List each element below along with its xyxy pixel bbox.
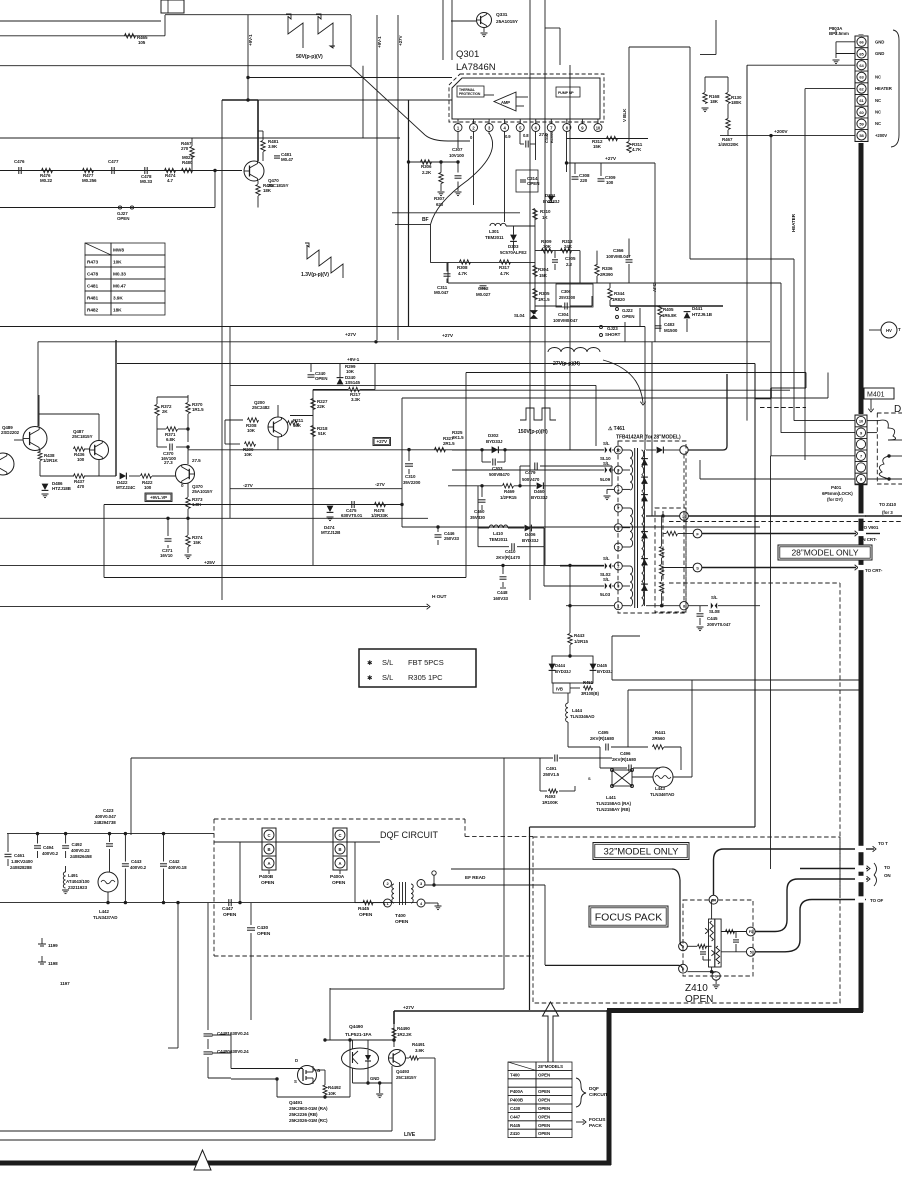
svg-text:R451: R451	[583, 680, 594, 685]
svg-text:250V1.5: 250V1.5	[543, 772, 560, 777]
svg-text:C430: C430	[510, 1106, 521, 1111]
svg-text:1.3V(p-p)(V): 1.3V(p-p)(V)	[301, 272, 329, 278]
svg-text:+27V: +27V	[398, 35, 403, 46]
svg-text:CIRCUIT: CIRCUIT	[589, 1092, 608, 1098]
svg-text:R473: R473	[87, 260, 98, 266]
svg-text:NC: NC	[875, 110, 881, 115]
svg-text:C4480: C4480	[217, 1049, 230, 1054]
svg-text:+27V: +27V	[403, 1005, 415, 1011]
svg-text:240826458: 240826458	[70, 854, 92, 859]
svg-text:R305 1PC: R305 1PC	[408, 673, 443, 682]
svg-text:16V10: 16V10	[160, 553, 173, 558]
svg-text:3.3K: 3.3K	[351, 397, 361, 402]
svg-text:-27V: -27V	[375, 482, 386, 488]
svg-text:R344: R344	[614, 291, 625, 296]
svg-text:BYD33J: BYD33J	[486, 439, 503, 444]
svg-text:28”MODEL ONLY: 28”MODEL ONLY	[791, 548, 858, 558]
svg-text:OPEN: OPEN	[538, 1098, 550, 1103]
svg-text:27V(p-p)(H): 27V(p-p)(H)	[553, 361, 580, 367]
svg-text:TO: TO	[884, 865, 891, 870]
svg-text:MTZJ24C: MTZJ24C	[116, 485, 136, 490]
svg-text:1/2FR15: 1/2FR15	[500, 495, 517, 500]
svg-text:BYD33J: BYD33J	[531, 495, 548, 500]
svg-text:3.9K: 3.9K	[415, 1048, 425, 1053]
svg-text:HEATER: HEATER	[791, 213, 796, 232]
svg-text:400V0.22: 400V0.22	[71, 848, 90, 853]
svg-text:HV: HV	[886, 328, 892, 333]
svg-text:S/L: S/L	[382, 658, 393, 667]
svg-text:R4492: R4492	[328, 1085, 341, 1090]
svg-text:C478: C478	[87, 272, 98, 278]
svg-text:C445: C445	[707, 616, 718, 621]
svg-text:0.9: 0.9	[505, 134, 511, 139]
svg-text:+200V: +200V	[875, 133, 887, 138]
svg-text:C304: C304	[558, 312, 569, 317]
svg-text:TO CRT-: TO CRT-	[865, 568, 883, 573]
svg-text:T400: T400	[510, 1072, 520, 1077]
svg-text:ON: ON	[884, 873, 891, 878]
svg-text:18K: 18K	[113, 308, 122, 314]
svg-text:1198: 1198	[48, 961, 58, 966]
svg-text:D: D	[295, 1058, 298, 1063]
svg-text:25A1015Y: 25A1015Y	[496, 19, 519, 25]
svg-text:2R390: 2R390	[600, 272, 613, 277]
svg-text:C495: C495	[598, 730, 609, 735]
svg-text:24K: 24K	[564, 244, 573, 249]
svg-text:1R2.2K: 1R2.2K	[397, 1032, 413, 1037]
svg-text:630V0.24: 630V0.24	[230, 1049, 249, 1054]
svg-text:Q4490: Q4490	[349, 1024, 363, 1030]
svg-text:OPEN: OPEN	[395, 919, 409, 925]
svg-text:15K: 15K	[193, 540, 202, 545]
svg-text:150V(p-p)(H): 150V(p-p)(H)	[518, 429, 548, 435]
svg-text:TO T: TO T	[878, 841, 888, 846]
svg-text:MTZJ12B: MTZJ12B	[321, 530, 341, 535]
svg-text:25K2236 (RB): 25K2236 (RB)	[289, 1112, 318, 1117]
svg-text:180K: 180K	[731, 100, 742, 105]
svg-text:400V0.18: 400V0.18	[168, 865, 187, 870]
svg-text:100VM0.047: 100VM0.047	[553, 318, 578, 323]
svg-text:NC: NC	[875, 98, 881, 103]
svg-text:L491: L491	[68, 873, 78, 878]
svg-text:M0.047: M0.047	[434, 290, 449, 295]
svg-text:OPEN: OPEN	[527, 181, 539, 186]
svg-text:EF READ: EF READ	[465, 875, 486, 881]
svg-text:NC: NC	[875, 74, 881, 79]
svg-text:R306: R306	[421, 164, 432, 169]
svg-text:6P5mm(LOCK): 6P5mm(LOCK)	[822, 491, 853, 496]
svg-text:160V33: 160V33	[493, 596, 509, 601]
svg-text:1/4W220K: 1/4W220K	[718, 142, 739, 147]
svg-text:D460: D460	[534, 489, 545, 494]
svg-text:1R100K: 1R100K	[542, 800, 559, 805]
svg-text:OPEN: OPEN	[685, 994, 713, 1005]
svg-text:C: C	[339, 833, 342, 838]
svg-text:S: S	[588, 776, 591, 781]
svg-text:C477: C477	[108, 159, 119, 164]
svg-text:IVB: IVB	[556, 687, 563, 692]
svg-text:S/L: S/L	[603, 461, 610, 466]
svg-text:BP2.5mm: BP2.5mm	[829, 31, 849, 36]
svg-text:R445: R445	[358, 906, 369, 912]
svg-text:+27V: +27V	[345, 332, 357, 338]
svg-text:400V0.2: 400V0.2	[130, 865, 147, 870]
svg-text:10K: 10K	[328, 1091, 337, 1096]
svg-text:D444: D444	[555, 663, 566, 668]
svg-text:1R1.5: 1R1.5	[538, 297, 550, 302]
svg-text:+9V-1: +9V-1	[347, 357, 360, 363]
svg-text:2.2K: 2.2K	[422, 170, 432, 175]
svg-text:R304: R304	[538, 267, 549, 272]
svg-text:100: 100	[144, 485, 152, 490]
svg-text:P400B: P400B	[259, 874, 274, 880]
svg-text:OPEN: OPEN	[257, 931, 271, 937]
svg-text:DQF CIRCUIT: DQF CIRCUIT	[380, 830, 438, 840]
svg-text:T400: T400	[395, 913, 406, 919]
svg-text:2KV(R)1680: 2KV(R)1680	[612, 757, 637, 762]
svg-text:D441: D441	[692, 306, 703, 311]
svg-text:OPEN: OPEN	[359, 912, 373, 918]
svg-text:TO OF: TO OF	[870, 898, 884, 903]
svg-text:+200V: +200V	[774, 129, 788, 135]
svg-text:AMP: AMP	[501, 100, 510, 105]
svg-text:OPEN: OPEN	[538, 1089, 550, 1094]
svg-text:OPEN: OPEN	[261, 880, 275, 886]
svg-text:C430: C430	[257, 925, 268, 931]
svg-text:F1: F1	[749, 930, 753, 934]
svg-text:10K: 10K	[247, 428, 256, 433]
svg-text:25C1815Y: 25C1815Y	[396, 1075, 417, 1080]
svg-text:C491: C491	[546, 766, 557, 771]
svg-text:+27V: +27V	[442, 333, 454, 339]
svg-text:TO Z410: TO Z410	[879, 502, 897, 507]
svg-text:C307: C307	[452, 147, 463, 152]
svg-text:C460: C460	[474, 509, 485, 514]
svg-text:C479: C479	[525, 470, 536, 475]
svg-text:35V2200: 35V2200	[403, 480, 421, 485]
svg-text:C461: C461	[14, 853, 25, 858]
svg-text:2KV(R)1470: 2KV(R)1470	[496, 555, 521, 560]
svg-text:LA7846N: LA7846N	[456, 62, 496, 73]
svg-text:1/2R1K: 1/2R1K	[43, 458, 59, 463]
svg-text:+9V-1: +9V-1	[248, 34, 253, 46]
svg-text:PACK: PACK	[589, 1123, 602, 1129]
svg-text:R307: R307	[434, 196, 445, 201]
svg-text:C492: C492	[72, 842, 83, 847]
svg-text:C476: C476	[14, 159, 25, 164]
svg-text:BYD33J: BYD33J	[555, 669, 571, 674]
svg-text:630VT0.01: 630VT0.01	[341, 513, 363, 518]
svg-text:2K: 2K	[162, 409, 168, 414]
svg-text:SL08: SL08	[709, 609, 720, 614]
svg-text:TLN3346AD: TLN3346AD	[570, 714, 595, 719]
svg-text:16V100: 16V100	[161, 456, 177, 461]
svg-text:S/L: S/L	[382, 673, 393, 682]
svg-text:HEATER: HEATER	[875, 86, 893, 91]
svg-text:28”MODELS: 28”MODELS	[538, 1064, 563, 1069]
svg-text:GND: GND	[370, 1076, 379, 1081]
svg-text:100VM0.047: 100VM0.047	[606, 254, 631, 259]
svg-text:18K: 18K	[263, 188, 272, 193]
svg-text:T: T	[898, 327, 901, 332]
svg-text:C410: C410	[505, 549, 516, 554]
svg-text:S/L: S/L	[603, 441, 610, 446]
svg-text:R445: R445	[510, 1123, 521, 1128]
svg-text:S/L: S/L	[711, 595, 718, 600]
svg-text:C312: C312	[478, 286, 489, 291]
svg-text:TLN2158AY (RB): TLN2158AY (RB)	[596, 807, 630, 812]
svg-text:C4481: C4481	[217, 1031, 230, 1036]
svg-text:HTZJ9.1B: HTZJ9.1B	[692, 312, 713, 317]
svg-text:5L03: 5L03	[600, 592, 611, 597]
svg-text:FOCUS PACK: FOCUS PACK	[595, 911, 662, 923]
svg-text:1R1.5: 1R1.5	[192, 407, 204, 412]
svg-text:51K: 51K	[318, 431, 327, 436]
svg-text:240828288: 240828288	[10, 865, 32, 870]
svg-text:M0.22: M0.22	[40, 178, 53, 183]
svg-text:M0.47: M0.47	[281, 157, 294, 162]
svg-text:⚠ T461: ⚠ T461	[608, 426, 625, 432]
svg-text:P400A: P400A	[510, 1089, 524, 1094]
svg-text:TFB4142AR (for 28”MODEL): TFB4142AR (for 28”MODEL)	[616, 435, 681, 441]
svg-text:AT4043/100: AT4043/100	[66, 879, 90, 884]
svg-text:R336: R336	[602, 266, 613, 271]
svg-text:HTZJ18B: HTZJ18B	[52, 486, 72, 491]
svg-text:+27V: +27V	[605, 156, 617, 162]
svg-text:25C1815Y: 25C1815Y	[72, 434, 93, 439]
svg-text:TLP521-1FA: TLP521-1FA	[345, 1032, 372, 1038]
svg-text:50V(p-p)(V): 50V(p-p)(V)	[296, 54, 323, 60]
svg-text:MW8: MW8	[113, 248, 124, 254]
svg-text:R405: R405	[663, 307, 674, 312]
svg-text:22K: 22K	[317, 404, 326, 409]
svg-text:TEM2011: TEM2011	[485, 235, 504, 240]
svg-text:1199: 1199	[48, 943, 58, 948]
svg-text:C494: C494	[43, 845, 54, 850]
svg-text:C448: C448	[497, 590, 508, 595]
svg-text:L444: L444	[572, 708, 582, 713]
svg-text:B1000: B1000	[549, 131, 554, 143]
svg-text:OPEN: OPEN	[117, 216, 129, 221]
svg-text:25A1015Y: 25A1015Y	[192, 489, 213, 494]
svg-text:C447: C447	[222, 906, 233, 912]
svg-text:L410: L410	[493, 531, 503, 536]
svg-text:10: 10	[682, 515, 686, 519]
svg-text:2KV(R)1680: 2KV(R)1680	[590, 736, 615, 741]
svg-text:M0.47: M0.47	[113, 284, 126, 290]
svg-text:OPEN: OPEN	[538, 1114, 550, 1119]
svg-text:10K: 10K	[346, 369, 355, 374]
svg-text:NC: NC	[875, 121, 881, 126]
svg-text:M0.027: M0.027	[476, 292, 491, 297]
svg-text:+27V: +27V	[377, 439, 388, 444]
svg-text:500VB470: 500VB470	[489, 472, 510, 477]
svg-text:M401: M401	[867, 392, 885, 399]
svg-text:TLN346TAD: TLN346TAD	[650, 792, 675, 797]
svg-text:TLN2158AG (RA): TLN2158AG (RA)	[596, 801, 631, 806]
svg-text:Q4493: Q4493	[396, 1069, 410, 1074]
svg-text:1R820: 1R820	[612, 297, 625, 302]
svg-text:C496: C496	[620, 751, 631, 756]
svg-text:1/2R15: 1/2R15	[574, 639, 589, 644]
svg-text:248294738: 248294738	[94, 820, 116, 825]
svg-text:6.8K: 6.8K	[166, 437, 176, 442]
svg-text:630V0.24: 630V0.24	[230, 1031, 249, 1036]
svg-text:2N: 2N	[711, 898, 716, 902]
svg-text:D301: D301	[545, 193, 556, 198]
svg-text:M022: M022	[182, 155, 193, 160]
svg-text:C442: C442	[169, 859, 180, 864]
svg-text:105: 105	[138, 40, 146, 45]
svg-text:15K: 15K	[539, 273, 548, 278]
svg-text:R469: R469	[504, 489, 515, 494]
svg-text:C443: C443	[131, 859, 142, 864]
svg-text:SL04: SL04	[514, 313, 525, 318]
svg-text:C447: C447	[510, 1114, 521, 1119]
svg-text:OPEN: OPEN	[622, 314, 634, 319]
svg-text:Z410: Z410	[685, 983, 708, 994]
svg-text:470: 470	[77, 484, 85, 489]
svg-text:500V470: 500V470	[522, 477, 540, 482]
svg-text:+9V-1: +9V-1	[377, 36, 382, 48]
svg-text:(for DY): (for DY)	[827, 497, 843, 502]
svg-text:270: 270	[181, 146, 189, 151]
svg-text:R482: R482	[87, 308, 98, 314]
svg-text:PROTECTION: PROTECTION	[459, 92, 481, 96]
svg-text:Z410: Z410	[510, 1131, 520, 1136]
svg-text:10V100: 10V100	[449, 153, 465, 158]
svg-text:TLN3437AD: TLN3437AD	[93, 915, 118, 920]
svg-text:D302: D302	[488, 433, 499, 438]
svg-text:R480: R480	[182, 160, 193, 165]
svg-text:S: S	[696, 565, 699, 570]
svg-text:1197: 1197	[60, 981, 70, 986]
svg-text:FOCUS: FOCUS	[589, 1117, 606, 1123]
svg-text:250V33: 250V33	[444, 536, 460, 541]
svg-text:P400A: P400A	[330, 874, 345, 880]
svg-text:1R6.8K: 1R6.8K	[662, 313, 678, 318]
svg-text:GJ22: GJ22	[622, 308, 633, 313]
svg-text:1S5145: 1S5145	[345, 380, 361, 385]
svg-text:30K: 30K	[543, 244, 552, 249]
svg-text:BYD33J: BYD33J	[522, 538, 539, 543]
svg-text:R443: R443	[574, 633, 585, 638]
svg-text:G: G	[715, 975, 718, 979]
svg-text:D406: D406	[525, 532, 536, 537]
svg-text:P400B: P400B	[510, 1098, 523, 1103]
svg-text:M0.256: M0.256	[82, 178, 97, 183]
svg-text:Q4491: Q4491	[289, 1100, 303, 1105]
svg-text:B: B	[268, 847, 271, 852]
svg-text:SHORT: SHORT	[605, 332, 621, 337]
svg-text:4.7K: 4.7K	[632, 147, 642, 152]
svg-text:BF: BF	[422, 217, 429, 223]
svg-text:(for 3: (for 3	[882, 510, 893, 515]
svg-text:25K2026-01M (RC): 25K2026-01M (RC)	[289, 1118, 328, 1123]
svg-text:A: A	[268, 861, 271, 866]
svg-text:S/L: S/L	[603, 577, 610, 582]
svg-text:L301: L301	[489, 229, 499, 234]
svg-text:✱: ✱	[367, 674, 373, 682]
svg-text:C310: C310	[405, 474, 416, 479]
svg-text:OPEN: OPEN	[538, 1123, 550, 1128]
svg-text:OPEN: OPEN	[538, 1072, 550, 1077]
svg-text:4.7: 4.7	[167, 178, 174, 183]
svg-text:S/L: S/L	[603, 556, 610, 561]
svg-text:2SD2202: 2SD2202	[1, 430, 20, 435]
svg-text:10K: 10K	[113, 260, 122, 266]
svg-text:5: 5	[750, 951, 752, 955]
svg-text:3R100(B): 3R100(B)	[581, 691, 599, 696]
svg-text:L441: L441	[606, 795, 616, 800]
svg-text:220: 220	[580, 178, 588, 183]
svg-text:BYD33J: BYD33J	[543, 199, 560, 204]
svg-text:25C2482: 25C2482	[252, 405, 270, 410]
svg-text:OPEN: OPEN	[538, 1131, 550, 1136]
svg-text:LIVE: LIVE	[404, 1132, 416, 1138]
svg-text:3.9K: 3.9K	[113, 296, 123, 302]
svg-text:H OUT: H OUT	[432, 594, 447, 600]
svg-text:GND: GND	[875, 51, 884, 56]
svg-text:2R560: 2R560	[652, 736, 665, 741]
svg-text:✱: ✱	[367, 659, 373, 667]
svg-text:Q331: Q331	[496, 12, 508, 18]
svg-text:1.8KV2400: 1.8KV2400	[11, 859, 33, 864]
svg-text:M0.33: M0.33	[113, 272, 126, 278]
svg-text:S: S	[294, 1079, 297, 1084]
svg-text:2K1.5: 2K1.5	[452, 435, 464, 440]
svg-text:GND: GND	[875, 39, 884, 44]
svg-text:400V0.047: 400V0.047	[95, 814, 116, 819]
svg-text:2.2: 2.2	[566, 262, 573, 267]
svg-text:400V0.2: 400V0.2	[42, 851, 59, 856]
svg-text:0.8: 0.8	[523, 133, 529, 138]
svg-text:R310: R310	[540, 209, 551, 214]
svg-text:32”MODEL ONLY: 32”MODEL ONLY	[604, 846, 680, 857]
svg-text:1/2R33K: 1/2R33K	[371, 513, 389, 518]
svg-text:R493: R493	[545, 794, 556, 799]
svg-text:R481: R481	[87, 296, 98, 302]
svg-text:M1500: M1500	[664, 328, 678, 333]
svg-text:C481: C481	[87, 284, 98, 290]
svg-text:OPEN: OPEN	[223, 912, 237, 918]
svg-text:OPEN: OPEN	[538, 1106, 550, 1111]
svg-text:R4491: R4491	[412, 1042, 425, 1047]
svg-text:R4490: R4490	[397, 1026, 410, 1031]
svg-text:200VT0.047: 200VT0.047	[707, 622, 731, 627]
svg-text:10: 10	[596, 126, 601, 131]
svg-text:AFC: AFC	[652, 282, 657, 292]
svg-text:R317: R317	[499, 265, 510, 270]
svg-text:L442: L442	[99, 909, 109, 914]
svg-text:ON CRT-: ON CRT-	[859, 537, 877, 542]
svg-text:OPEN: OPEN	[315, 376, 327, 381]
svg-text:R441: R441	[655, 730, 666, 735]
svg-text:FBT 5PCS: FBT 5PCS	[408, 658, 444, 667]
svg-text:B: B	[339, 847, 342, 852]
svg-text:100: 100	[606, 180, 614, 185]
svg-text:D445: D445	[597, 663, 608, 668]
svg-text:TO V901: TO V901	[861, 525, 879, 530]
svg-text:C: C	[268, 833, 271, 838]
svg-text:100: 100	[77, 457, 85, 462]
svg-text:-27V: -27V	[243, 483, 254, 489]
svg-text:BYD33J: BYD33J	[597, 669, 613, 674]
svg-text:+9VL.VP: +9VL.VP	[150, 495, 167, 500]
svg-text:C483: C483	[664, 322, 675, 327]
svg-text:10K: 10K	[244, 452, 253, 457]
svg-text:5L09: 5L09	[600, 477, 611, 482]
